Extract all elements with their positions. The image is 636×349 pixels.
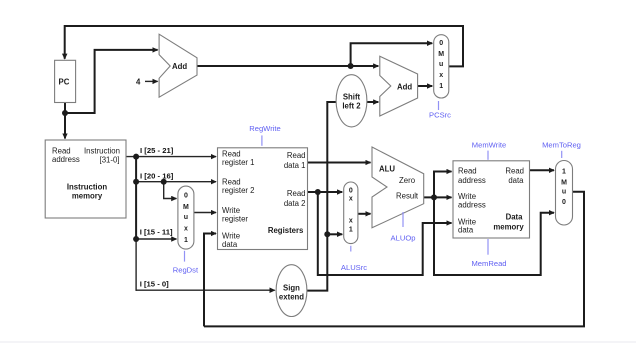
svg-text:M: M <box>561 180 567 187</box>
node: branch junction <box>161 179 167 185</box>
svg-text:u: u <box>439 61 443 68</box>
svg-text:data 2: data 2 <box>284 199 306 208</box>
svg-text:RegDst: RegDst <box>173 266 199 275</box>
wire: ALU result to Write address <box>424 196 452 198</box>
svg-text:address: address <box>52 155 80 164</box>
svg-text:MemToReg: MemToReg <box>542 141 581 150</box>
svg-text:data: data <box>458 226 474 235</box>
svg-text:4: 4 <box>136 77 141 86</box>
svg-text:I [15 - 11]: I [15 - 11] <box>140 228 173 237</box>
ALU <box>372 147 424 228</box>
svg-text:PC: PC <box>59 78 70 87</box>
svg-text:I [25 - 21]: I [25 - 21] <box>140 146 174 155</box>
svg-text:I [20 - 16]: I [20 - 16] <box>140 172 174 181</box>
svg-text:x: x <box>349 218 353 225</box>
wire: sign extend output up to shift left 2 <box>306 102 337 291</box>
svg-text:[31-0]: [31-0] <box>100 155 120 164</box>
svg-text:u: u <box>562 189 566 196</box>
wire: sign extend branch to mux ALUSrc input 1 <box>327 233 342 235</box>
wire: mux PCSrc output to PC (top loop) <box>65 26 463 66</box>
svg-text:data 1: data 1 <box>284 161 306 170</box>
svg-text:1: 1 <box>184 237 188 244</box>
svg-text:address: address <box>458 176 486 185</box>
register PC <box>55 60 76 102</box>
svg-text:Registers: Registers <box>268 226 304 235</box>
wire: mux MemToReg output write-back loop <box>204 192 584 327</box>
svg-text:I [15 - 0]: I [15 - 0] <box>140 280 169 289</box>
svg-text:RegWrite: RegWrite <box>249 124 281 133</box>
control tick MemRead <box>487 239 489 255</box>
wire: PC to Add (PC+4) <box>65 50 158 113</box>
wire: shift left 2 to branch Add <box>367 101 379 103</box>
svg-text:Shift: Shift <box>343 92 361 101</box>
svg-text:0: 0 <box>184 193 188 200</box>
wire: PC+4 to mux PCSrc input 0 <box>351 43 433 66</box>
control tick ALUOp <box>402 212 404 227</box>
svg-text:Instruction: Instruction <box>84 146 120 155</box>
svg-text:Sign: Sign <box>283 284 300 293</box>
adder Add (branch) <box>380 56 418 116</box>
control tick PCSrc <box>438 101 440 110</box>
wire: instruction vertical bus <box>135 157 137 239</box>
wire: instruction I[25-21] to Read register 1 <box>126 156 216 158</box>
svg-text:Read: Read <box>52 146 71 155</box>
svg-text:0: 0 <box>562 199 566 206</box>
svg-text:PCSrc: PCSrc <box>429 111 451 120</box>
svg-text:extend: extend <box>279 293 304 302</box>
node: instruction bus junction <box>133 154 139 160</box>
wire: mux RegDst output to Write register <box>194 212 216 214</box>
node: PC output junction <box>62 110 68 116</box>
wire: PC to instruction memory <box>64 103 66 139</box>
svg-text:data: data <box>222 240 238 249</box>
faint bottom rule <box>0 341 636 343</box>
sign extend <box>276 265 307 317</box>
wire: I[20-16] to Read register 2 <box>136 181 216 183</box>
svg-text:0: 0 <box>349 188 353 195</box>
svg-text:Add: Add <box>397 83 412 92</box>
svg-text:Result: Result <box>396 192 419 201</box>
svg-text:MemWrite: MemWrite <box>472 141 506 150</box>
wire: I[15-0] to sign extend <box>136 289 275 291</box>
mux ALUSrc <box>344 182 358 244</box>
svg-text:left 2: left 2 <box>342 102 361 111</box>
svg-text:Zero: Zero <box>399 176 416 185</box>
control tick MemToReg <box>561 151 563 158</box>
control tick RegWrite <box>261 135 263 145</box>
svg-text:Read: Read <box>505 167 524 176</box>
wire: Read data 2 to mux ALUSrc input 0 <box>308 191 343 193</box>
svg-text:memory: memory <box>493 222 524 231</box>
svg-text:u: u <box>184 214 188 221</box>
control tick MemWrite <box>487 151 489 160</box>
shift left 2 <box>336 75 367 127</box>
svg-text:x: x <box>439 72 443 79</box>
wire: Add output (PC+4) to branch Add <box>197 65 378 67</box>
wire: I[15-11] to mux RegDst input 1 <box>136 238 176 240</box>
svg-text:register 2: register 2 <box>222 186 255 195</box>
svg-text:M: M <box>183 204 189 211</box>
svg-text:ALU: ALU <box>379 165 395 174</box>
mux MemToReg <box>556 161 573 226</box>
svg-text:Read: Read <box>287 151 306 160</box>
node: sign extend junction <box>324 231 330 237</box>
wire: I[20-16] branch to mux RegDst input 0 <box>164 182 177 199</box>
wire: constant 4 into Add <box>145 80 158 82</box>
node: I[15-11] junction on bus <box>133 236 139 242</box>
node: Read data 2 junction <box>315 189 321 195</box>
svg-text:M: M <box>438 51 444 58</box>
svg-text:ALUSrc: ALUSrc <box>341 263 367 272</box>
svg-text:MemRead: MemRead <box>471 259 506 268</box>
node: I[20-16] junction on bus <box>133 179 139 185</box>
wire: branch Add output to mux PCSrc input 1 <box>418 85 433 87</box>
instruction memory <box>45 140 126 218</box>
svg-text:1: 1 <box>562 169 566 176</box>
wire: mux ALUSrc output to ALU <box>358 213 371 215</box>
data memory <box>453 161 530 238</box>
svg-text:1: 1 <box>439 83 443 90</box>
svg-text:Data: Data <box>506 213 524 222</box>
node: ALU result junction <box>431 194 437 200</box>
svg-text:Instruction: Instruction <box>67 183 108 192</box>
svg-text:1: 1 <box>349 227 353 234</box>
wire: ALU result branch to Read address <box>434 172 452 198</box>
wire: Read data 1 to ALU <box>308 162 371 164</box>
svg-text:Read: Read <box>287 189 306 198</box>
svg-text:x: x <box>349 196 353 203</box>
svg-text:x: x <box>184 225 188 232</box>
svg-text:address: address <box>458 200 486 209</box>
wire: ALU result to mux MemToReg input 0 <box>434 197 554 275</box>
control tick ALUSrc <box>350 246 352 252</box>
registers <box>218 148 308 250</box>
mux RegDst <box>178 186 194 249</box>
control tick RegDst <box>184 251 186 262</box>
node: PC+4 junction <box>348 63 354 69</box>
svg-text:Add: Add <box>172 62 187 71</box>
svg-text:data: data <box>508 176 524 185</box>
svg-text:ALUOp: ALUOp <box>391 234 416 243</box>
adder Add (PC+4) <box>159 34 197 97</box>
svg-text:memory: memory <box>72 192 103 201</box>
svg-text:0: 0 <box>439 40 443 47</box>
wire: memory Read data to mux MemToReg input 1 <box>530 169 555 171</box>
svg-text:register: register <box>222 215 248 224</box>
mux PCSrc <box>434 35 449 98</box>
wire: Read data 2 to data memory Write data <box>318 192 452 275</box>
wire: write-back data to Write data (registers) <box>204 234 216 327</box>
svg-text:register 1: register 1 <box>222 158 255 167</box>
svg-text:Read: Read <box>458 167 477 176</box>
